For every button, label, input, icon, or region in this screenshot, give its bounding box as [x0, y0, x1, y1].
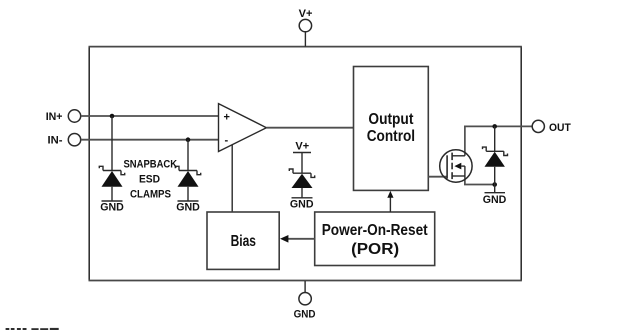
label clipped caption (bottom-left) — [6, 328, 59, 330]
wire V+ pin to chip top — [304, 32, 306, 47]
svg-text:V+: V+ — [295, 141, 309, 153]
svg-text:-: - — [225, 135, 229, 147]
svg-text:Control: Control — [367, 128, 415, 145]
ground GND under D3 — [290, 198, 314, 211]
wire IN+ to comparator — [81, 115, 219, 117]
wire IN- to comparator — [81, 139, 219, 141]
svg-text:+: + — [224, 112, 230, 124]
svg-text:Output: Output — [368, 111, 414, 128]
svg-text:IN+: IN+ — [46, 111, 63, 123]
svg-text:GND: GND — [176, 202, 200, 214]
svg-text:GND: GND — [100, 202, 124, 214]
svg-text:GND: GND — [294, 308, 316, 320]
svg-text:ESD: ESD — [139, 173, 160, 185]
wire drain up to OUT line — [464, 126, 466, 155]
wire source down to GND node — [464, 176, 466, 185]
svg-text:Power-On-Reset: Power-On-Reset — [322, 222, 429, 239]
node IN- / D2 junction — [186, 137, 191, 142]
label SNAPBACK ESD CLAMPS — [124, 158, 178, 200]
pin IN- — [48, 134, 81, 147]
wire POR to Bias (arrow left) — [280, 235, 315, 243]
power V+ rail for D3 — [293, 141, 311, 153]
svg-text:GND: GND — [483, 194, 507, 206]
node OUT / D4 cathode junction — [492, 124, 497, 129]
diode D3 V+ ESD clamp — [289, 153, 314, 198]
block Power-On-Reset (POR) — [315, 212, 435, 266]
wire comparator output to Output Control — [266, 127, 353, 129]
block Output Control — [354, 67, 429, 191]
diode D4 output snapback clamp — [483, 126, 508, 192]
chip outline — [88, 47, 90, 281]
pin IN+ — [46, 110, 81, 123]
diode D1 snapback clamp on IN+ — [99, 116, 124, 201]
wire Output Control to transistor gate — [428, 176, 447, 178]
ground GND under D2 — [176, 201, 200, 214]
svg-text:GND: GND — [290, 199, 314, 211]
ground GND under D4 — [483, 193, 507, 206]
block Bias — [207, 212, 279, 269]
pin OUT — [532, 120, 571, 134]
pin GND (bottom) — [294, 281, 316, 320]
wire POR to Output Control (arrow up) — [387, 191, 393, 212]
pin V+ (top) — [299, 8, 313, 32]
op-amp U1 comparator — [219, 104, 267, 152]
svg-text:IN-: IN- — [48, 135, 63, 147]
node source / D4 anode junction — [492, 182, 497, 187]
svg-text:(POR): (POR) — [351, 241, 399, 258]
diode D2 snapback clamp on IN- — [175, 140, 200, 201]
node IN+ / D1 junction — [110, 114, 115, 119]
transistor Q1 NMOS — [440, 150, 472, 182]
ground GND under D1 — [100, 201, 124, 214]
svg-text:SNAPBACK: SNAPBACK — [124, 158, 178, 170]
svg-text:CLAMPS: CLAMPS — [130, 188, 171, 200]
svg-text:OUT: OUT — [549, 122, 571, 134]
svg-text:V+: V+ — [299, 8, 313, 20]
svg-text:Bias: Bias — [231, 233, 256, 250]
wire comparator to Bias — [231, 145, 233, 212]
